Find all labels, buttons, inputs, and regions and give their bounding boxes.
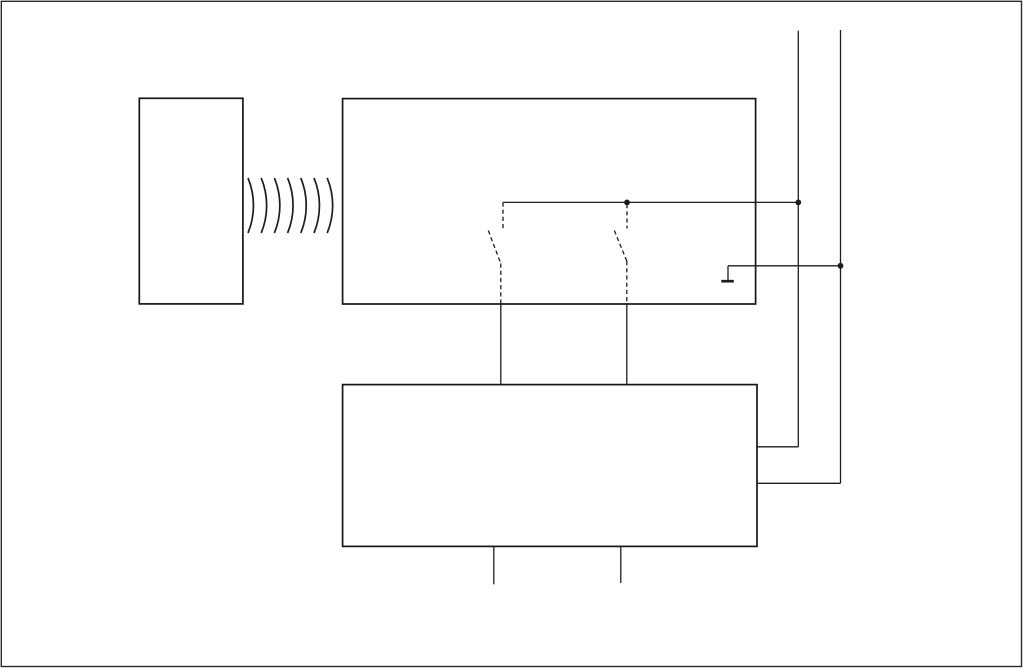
switch S2 lower terminal (dashed) xyxy=(626,261,628,304)
wire: switch bus to supply line 1 xyxy=(503,201,798,203)
load box xyxy=(343,385,757,547)
node: junction dot on supply line 2 xyxy=(838,263,844,269)
wire: load box to supply line 2 xyxy=(757,482,841,484)
switch S2 blade (dashed) xyxy=(614,231,627,262)
wire: load box to supply line 1 xyxy=(757,446,798,448)
RF wave arc 2 xyxy=(261,178,266,233)
RF wave arc 1 xyxy=(248,178,253,233)
RF wave arc 6 xyxy=(314,178,319,233)
node: junction dot at switch 2 tap xyxy=(624,200,630,206)
switch S1 blade (dashed) xyxy=(488,231,501,264)
wire: supply line 2 (vertical) xyxy=(840,30,842,483)
wire: switch 2 output to load box xyxy=(626,304,628,385)
RF wave arc 3 xyxy=(274,178,279,233)
switch S2 upper terminal (dashed) xyxy=(626,204,628,229)
ground stub xyxy=(727,266,729,280)
node: junction dot on supply line 1 xyxy=(795,200,801,206)
RF wave arc 7 xyxy=(327,178,332,233)
wire: switch 1 output to load box xyxy=(500,304,502,385)
RF wave arc 5 xyxy=(301,178,306,233)
switch S1 upper terminal (dashed) xyxy=(502,202,504,228)
RF wave arc 4 xyxy=(288,178,293,233)
wire: ground branch to supply line 2 xyxy=(728,265,841,267)
receiver box xyxy=(343,99,756,304)
wire: load box bottom pin 2 xyxy=(620,546,622,583)
switch S1 lower terminal (dashed) xyxy=(500,264,502,304)
ground bar xyxy=(721,280,734,283)
wire: load box bottom pin 1 xyxy=(493,546,495,584)
transmitter box (remote control) xyxy=(139,98,243,304)
wire: supply line 1 (vertical) xyxy=(797,31,799,447)
